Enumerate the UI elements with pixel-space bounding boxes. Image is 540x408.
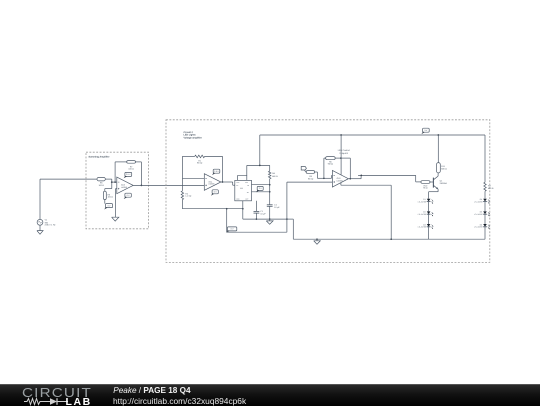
ground OA2: [112, 217, 119, 221]
svg-text:95 kΩ: 95 kΩ: [308, 177, 314, 180]
resistor R6: [97, 177, 105, 181]
LED D5: [483, 211, 487, 214]
wire OA2 plus to ground: [115, 188, 116, 190]
wire IC THR: [252, 184, 270, 186]
LED D1: [427, 199, 431, 202]
svg-text:LTL-307EE: LTL-307EE: [418, 200, 427, 203]
voltage flag OA1 minus: [213, 169, 220, 173]
svg-text:2.5 V: 2.5 V: [214, 170, 219, 173]
svg-text:2.85 V 1 Hz: 2.85 V 1 Hz: [45, 224, 56, 227]
node X riser to OA3 plus net: [286, 182, 288, 219]
svg-text:2N3904: 2N3904: [440, 182, 448, 185]
svg-text:100 Ω: 100 Ω: [108, 196, 114, 199]
op-amp OA1: [204, 174, 221, 191]
LED D3: [427, 224, 431, 227]
svg-text:100 Ω: 100 Ω: [128, 168, 134, 171]
wire R6 to op-amp minus node: [105, 178, 112, 180]
LED D6: [483, 224, 487, 227]
LED D4: [483, 199, 487, 202]
voltage flag OA2 minus: [125, 172, 132, 176]
wire OA1 minus: [182, 178, 204, 180]
op-amp OA2: [117, 177, 133, 194]
wire V1 to R6: [39, 179, 41, 219]
svg-text:2.5 V: 2.5 V: [126, 173, 131, 176]
voltage flag OA1 plus: [212, 190, 218, 194]
resistor R9: [306, 171, 315, 174]
svg-text:10 µF: 10 µF: [260, 213, 266, 216]
feedback wire left leg: [181, 156, 183, 178]
voltage flag OA2 plus: [125, 193, 131, 197]
svg-text:LTL-307EE: LTL-307EE: [474, 226, 483, 229]
CircuitLab logo: [22, 386, 92, 400]
resistor R11 collector: [437, 163, 441, 173]
net flag OUT: [301, 167, 306, 171]
svg-text:LTL-307EE: LTL-307EE: [474, 200, 483, 203]
wire to R8: [105, 188, 112, 190]
svg-text:LTL-307EE: LTL-307EE: [474, 213, 483, 216]
resistor R2: [181, 179, 183, 191]
feedback wire to R7: [114, 162, 116, 182]
wire IC TRG: [252, 191, 270, 193]
right branch supply: [484, 135, 486, 182]
svg-text:100 Ω: 100 Ω: [99, 184, 105, 187]
LED D2: [427, 211, 431, 214]
resistor R10 base: [421, 181, 430, 184]
wire emitter to LED column: [437, 189, 439, 192]
svg-text:10 µF: 10 µF: [274, 206, 280, 209]
wire R4 down rail: [269, 179, 271, 205]
IC U1 555: [235, 180, 252, 200]
wire IC OUT pin down: [255, 201, 257, 212]
transistor Q1: [432, 178, 434, 188]
resistor R3: [484, 182, 486, 191]
resistor R4: [269, 165, 271, 171]
wire OA2 output: [133, 184, 204, 186]
capacitor C1: [254, 210, 260, 212]
svg-text:680 Ω: 680 Ω: [441, 167, 447, 170]
ground rail A: [182, 208, 242, 210]
feedback left leg OA3: [323, 158, 325, 178]
OA3 V- wire: [340, 183, 342, 185]
svg-text:95 kΩ: 95 kΩ: [328, 163, 334, 166]
wire OA1 output to IC: [221, 181, 233, 183]
svg-text:555: 555: [240, 187, 243, 190]
wires LED column right: [484, 202, 486, 212]
voltage flag IC right: [257, 186, 263, 190]
svg-text:LTL-307EE: LTL-307EE: [418, 213, 427, 216]
wire to OA3 plus input: [287, 181, 333, 183]
wire base: [430, 181, 433, 183]
feedback right leg OA3: [335, 157, 350, 159]
svg-text:LED Lights: LED Lights: [184, 134, 197, 137]
svg-text:LED Control: LED Control: [338, 149, 350, 152]
op-amp OA3: [332, 170, 348, 187]
resistor R7: [127, 161, 136, 164]
resistor R8: [103, 191, 106, 199]
voltage flag on R8 node: [105, 204, 112, 208]
supply wire to IC: [259, 135, 261, 165]
bottom rail: [293, 238, 485, 240]
capacitor C2: [267, 204, 273, 206]
svg-text:1.1 kΩ: 1.1 kΩ: [185, 195, 191, 198]
dashed box Circuit 4: [166, 120, 490, 263]
wire R8 bottom: [104, 200, 106, 204]
feedback wire right leg: [205, 155, 223, 157]
ground under C2: [266, 221, 273, 224]
svg-text:Circuit 4: Circuit 4: [184, 131, 194, 134]
svg-text:LTL-307EE: LTL-307EE: [418, 226, 427, 229]
svg-text:95 Ω: 95 Ω: [423, 187, 428, 190]
svg-text:680 Ω: 680 Ω: [488, 187, 494, 190]
jumper wire over IC top pins: [237, 176, 246, 181]
voltage flag ground net: [227, 227, 236, 231]
wire rail A to flag corner: [226, 209, 228, 233]
voltage source V1: [37, 219, 43, 225]
OA3 output wire: [348, 178, 361, 180]
svg-text:Summing Amplifier: Summing Amplifier: [89, 155, 110, 158]
ground under V1: [39, 225, 41, 230]
step to bottom rail: [287, 218, 293, 220]
wire IC GND pin down: [242, 201, 244, 219]
OA3 V+ supply wire: [340, 135, 342, 175]
ground on bottom rail: [316, 238, 318, 240]
resistor R5: [326, 157, 336, 160]
svg-text:Voltage amplifier: Voltage amplifier: [184, 136, 202, 139]
top supply rail: [260, 134, 485, 136]
footer title text: [113, 386, 190, 395]
footer url: [113, 396, 246, 406]
svg-text:LM358: LM358: [121, 186, 127, 189]
voltage flag supply: [423, 128, 430, 132]
svg-text:95 kΩ: 95 kΩ: [197, 162, 203, 165]
ground rail B upper: [243, 218, 287, 220]
svg-text:680 Ω: 680 Ω: [272, 175, 278, 178]
svg-text:LM358: LM358: [209, 183, 215, 186]
wires LED column left: [428, 202, 430, 212]
wire C2 to ground: [269, 206, 271, 221]
feedback wire R7 to output: [136, 161, 142, 163]
dashed box Summing Amplifier: [86, 152, 149, 229]
wire R9 to OA3 minus: [315, 171, 318, 173]
wire collector: [437, 173, 439, 176]
svg-text:LM358: LM358: [337, 179, 343, 182]
resistor R1: [195, 155, 205, 158]
